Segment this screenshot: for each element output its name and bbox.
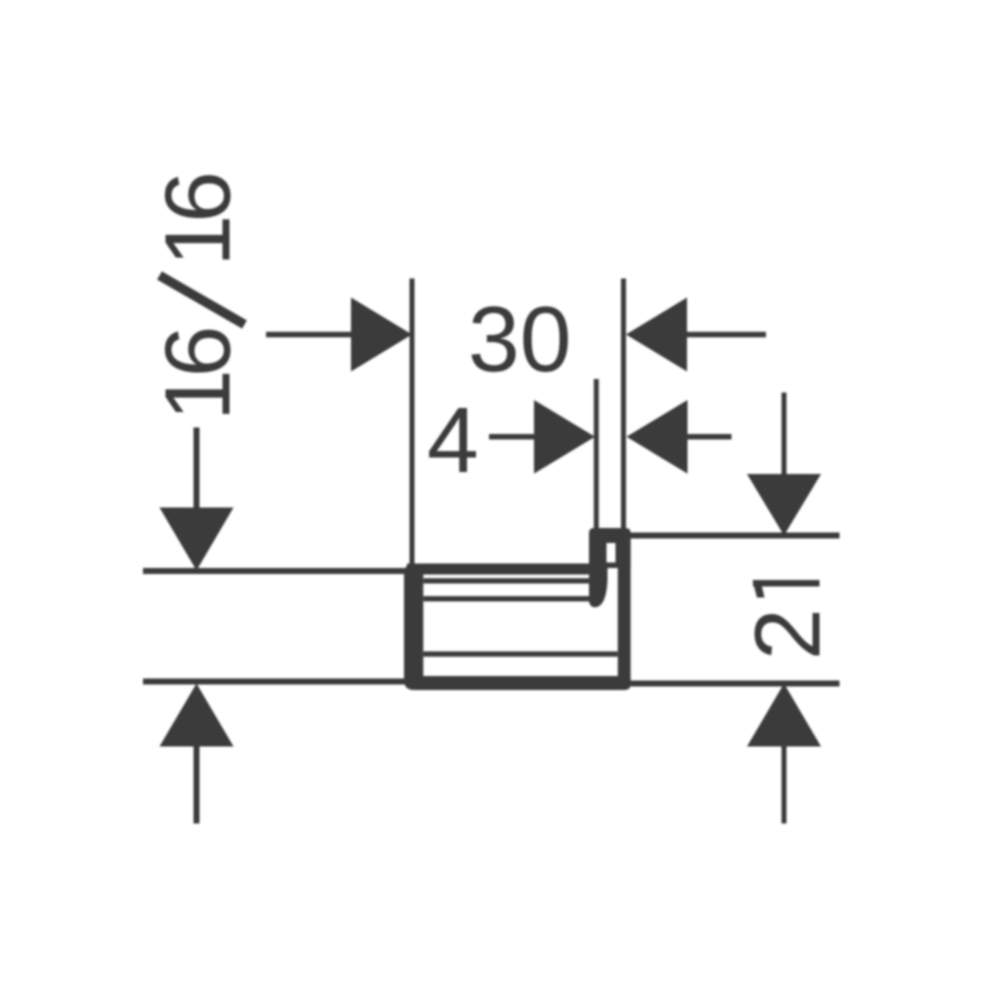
label 21 (rotated): digit 1 bar — [753, 580, 820, 587]
wire: dimension line left horizontal y=571 — [143, 568, 407, 574]
svg-text:16: 16 — [146, 175, 250, 267]
product profile: wall strip right wall — [618, 535, 631, 683]
svg-text:30: 30 — [468, 287, 571, 391]
wire: extension line x=623.5 vertical — [621, 279, 626, 530]
arrow down-pointing for dim 21 top — [747, 474, 821, 536]
wire: leader of up arrow left x=196.5 — [194, 746, 200, 824]
svg-text:2: 2 — [736, 608, 840, 660]
product profile: inner line B — [423, 596, 596, 601]
product profile: rail top edge — [407, 564, 595, 575]
wire: tail of 30 left arrow — [266, 332, 352, 338]
arrow up-pointing for dim 16/16 bottom — [160, 684, 234, 747]
wire: leader of up arrow right x=784 — [782, 746, 787, 824]
product profile: rail left wall + bottom edge (L-shape) — [404, 564, 631, 691]
wire: tail of 4 left arrow — [489, 434, 535, 440]
svg-text:4: 4 — [427, 388, 479, 492]
wire: leader of down arrow right x=784 — [782, 393, 787, 476]
wire: dimension line top-right horizontal y=535.5 — [630, 533, 840, 539]
product profile: inner line A — [423, 578, 589, 583]
arrow down-pointing for dim 16/16 top — [160, 508, 234, 571]
wire: leader of down arrow left x=196.5 — [194, 428, 200, 509]
arrow left-pointing for dim 30 — [626, 298, 687, 372]
label 16/16 (rotated): slash — [160, 276, 245, 325]
svg-text:16: 16 — [146, 329, 250, 421]
arrow right-pointing for dim 4 — [534, 400, 595, 474]
wire: extension line x=412 vertical — [410, 279, 415, 568]
product profile: hook bridge with notch and curved tail — [589, 528, 631, 607]
arrow left-pointing for dim 4 — [627, 400, 688, 474]
wire: dimension line bottom-left horizontal y=681.5 — [143, 679, 405, 685]
label 21 (rotated): digit 1 flag — [753, 581, 765, 598]
arrow right-pointing for dim 30 — [351, 298, 412, 372]
wire: tail of 4 right arrow — [688, 434, 732, 440]
wire: tail of 30 right arrow — [687, 332, 766, 338]
arrow up-pointing for dim 21 bottom — [747, 684, 821, 747]
wire: extension line x=596.3 vertical — [594, 379, 599, 530]
wire: dimension line bottom-right horizontal y=683.5 — [630, 681, 840, 687]
product profile: inner line C — [423, 651, 618, 656]
